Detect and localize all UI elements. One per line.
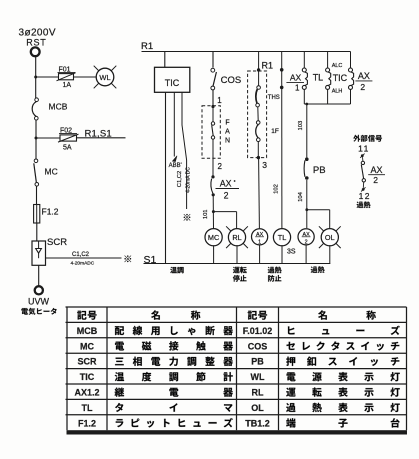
- svg-text:3S: 3S: [287, 249, 296, 256]
- wire 104: [306, 180, 308, 210]
- wire TIC sensor input ABB': [173, 92, 175, 156]
- label run stop: [233, 267, 240, 273]
- svg-text:F: F: [225, 120, 229, 127]
- label temperature control: [170, 267, 177, 273]
- timer coil TL: [273, 229, 290, 246]
- svg-text:OL: OL: [325, 233, 335, 242]
- svg-text:1F: 1F: [271, 128, 279, 135]
- svg-text:TL: TL: [313, 73, 324, 83]
- lamp WL power indicator: [96, 68, 114, 86]
- svg-text:3: 3: [262, 160, 267, 170]
- wire TIC output C1 C2: [182, 92, 187, 209]
- wire 101 to MC coil: [212, 196, 214, 229]
- supply terminal: [31, 47, 40, 56]
- svg-text:SCR: SCR: [47, 237, 67, 248]
- svg-text:F1.2: F1.2: [42, 207, 59, 217]
- wire branch to RL: [213, 211, 236, 213]
- svg-text:S1: S1: [144, 254, 157, 266]
- label overheat external: [357, 202, 364, 208]
- svg-text:MCB: MCB: [77, 326, 98, 336]
- svg-text:2: 2: [360, 82, 365, 92]
- remote box R1 dashed: [248, 71, 267, 158]
- label external signal: [353, 135, 360, 142]
- fuse F1.2 rapid: [34, 205, 40, 224]
- svg-text:F.01.02: F.01.02: [243, 326, 273, 336]
- svg-text:WL: WL: [99, 73, 110, 82]
- svg-text:102: 102: [273, 184, 279, 194]
- svg-text:2: 2: [218, 162, 223, 171]
- svg-text:AX1.2: AX1.2: [74, 388, 99, 398]
- wire rail to R1 interlock box: [258, 52, 260, 71]
- node 101 junction: [212, 210, 215, 213]
- svg-text:A: A: [225, 129, 230, 136]
- wire rail to TL coil 102: [281, 52, 283, 229]
- relay coil AX1: [252, 229, 268, 245]
- svg-text:OL: OL: [251, 403, 264, 413]
- wire rail R1: [142, 51, 351, 53]
- svg-text:THS: THS: [268, 95, 280, 101]
- contact AX2 heater enable: [211, 179, 213, 194]
- svg-text:2: 2: [224, 191, 229, 201]
- legend table: [66, 306, 407, 308]
- svg-text:COS: COS: [221, 75, 242, 86]
- svg-text:C1,C2: C1,C2: [72, 252, 90, 258]
- svg-text:TL: TL: [278, 233, 287, 242]
- node TL branch upper: [280, 68, 284, 72]
- remote box FAN dashed: [202, 106, 220, 159]
- wire to AX2 coil: [306, 210, 308, 228]
- svg-text:R1: R1: [141, 41, 153, 52]
- svg-text:4-20mA DC: 4-20mA DC: [185, 167, 191, 193]
- label electric heater: [21, 308, 28, 314]
- svg-text:103: 103: [298, 121, 304, 131]
- wire to fuse F01: [36, 76, 59, 78]
- terminal 12: [362, 188, 365, 191]
- svg-text:UVW: UVW: [28, 297, 50, 307]
- wire TIC to S1: [165, 92, 167, 263]
- svg-text:5A: 5A: [63, 144, 72, 151]
- coil MC contactor: [205, 229, 222, 246]
- contact AX2 external: [361, 161, 364, 164]
- relay coil AX2: [298, 229, 314, 245]
- contact TIC ALH / AX2: [350, 52, 352, 69]
- wire rail to TIC: [164, 52, 166, 68]
- svg-text:RST: RST: [26, 38, 46, 48]
- reference mark to SCR input: [184, 214, 191, 221]
- svg-text:F1.2: F1.2: [78, 418, 96, 428]
- svg-text:WL: WL: [251, 372, 265, 382]
- wire SCR control input C1 C2: [46, 257, 122, 259]
- reference mark to TIC output: [124, 255, 131, 262]
- svg-text:AX: AX: [358, 71, 370, 81]
- lamp OL overheat indicator: [321, 229, 338, 246]
- wire to fuse F02: [36, 137, 60, 139]
- wire 103 to PB: [306, 104, 308, 157]
- svg-text:PB: PB: [313, 165, 326, 176]
- node R1 branch top: [257, 68, 260, 71]
- svg-text:ABB': ABB': [169, 163, 182, 169]
- svg-text:TL: TL: [82, 403, 93, 413]
- wire alarm node: [304, 103, 350, 105]
- svg-text:TIC: TIC: [80, 372, 95, 382]
- svg-text:1: 1: [295, 83, 300, 92]
- svg-text:101: 101: [203, 209, 209, 219]
- wire main vertical to MCB: [35, 56, 37, 98]
- svg-text:SCR: SCR: [77, 357, 97, 367]
- svg-text:RL: RL: [232, 233, 241, 242]
- wire SCR to heater terminal: [38, 265, 40, 286]
- power regulator SCR: [32, 241, 46, 265]
- wire F1.2 to SCR: [36, 223, 38, 241]
- label overheat prevention: [268, 267, 275, 273]
- selector switch COS: [211, 68, 215, 72]
- svg-text:TIC: TIC: [333, 73, 348, 83]
- node F02 tap: [35, 137, 38, 140]
- svg-text:MC: MC: [208, 233, 219, 242]
- svg-text:104: 104: [298, 191, 304, 201]
- svg-text:12: 12: [359, 191, 371, 201]
- breaker MCB: [35, 98, 39, 102]
- contact FAN interlock: [212, 107, 214, 122]
- svg-text:TB1.2: TB1.2: [245, 418, 270, 428]
- wire MCB to F02 tap: [35, 120, 37, 159]
- contact MC main: [34, 159, 38, 163]
- wire branch to OL: [305, 208, 308, 211]
- label overheat: [311, 267, 318, 273]
- node 3: [257, 156, 260, 159]
- wire to AX1 coil: [258, 158, 261, 229]
- svg-text:4-20mADC: 4-20mADC: [71, 260, 95, 266]
- svg-text:11: 11: [358, 144, 370, 154]
- controller TIC temperature: [155, 67, 190, 92]
- wire rail S1: [144, 263, 331, 265]
- wire rail to COS: [212, 52, 214, 68]
- svg-text:RL: RL: [252, 388, 264, 398]
- wire MC to F1.2: [36, 186, 38, 204]
- heater terminal UVW: [35, 286, 43, 294]
- table bottom border: [67, 430, 408, 434]
- svg-text:AX: AX: [290, 73, 302, 83]
- svg-text:PB: PB: [251, 357, 264, 367]
- svg-text:2: 2: [305, 240, 308, 246]
- contact TIC ALC: [327, 52, 329, 69]
- table header: [77, 311, 86, 320]
- svg-text:N: N: [225, 138, 230, 145]
- lamp RL run indicator: [228, 229, 245, 246]
- svg-text:2: 2: [373, 175, 378, 185]
- svg-text:1: 1: [258, 240, 261, 246]
- wire COS to node 1: [212, 90, 214, 106]
- svg-text:AX: AX: [220, 179, 232, 189]
- node TL branch lower: [280, 86, 284, 90]
- contact THS thermostat: [258, 70, 260, 86]
- wire 1F to node 3: [257, 142, 259, 157]
- svg-text:AX: AX: [370, 165, 382, 175]
- wire F01 to WL: [74, 76, 97, 78]
- svg-text:C1,C2: C1,C2: [177, 171, 183, 187]
- contact 1F thermal fuse: [257, 107, 259, 121]
- contact AX1 alarm: [303, 52, 305, 69]
- pushbutton PB: [305, 157, 309, 161]
- node F01 tap: [34, 76, 37, 79]
- svg-text:R1: R1: [262, 61, 274, 71]
- svg-text:1: 1: [217, 96, 222, 105]
- svg-text:1A: 1A: [63, 82, 72, 89]
- svg-text:ALC: ALC: [332, 63, 343, 69]
- svg-text:MC: MC: [45, 167, 58, 177]
- svg-text:ALH: ALH: [332, 89, 343, 95]
- svg-text:MCB: MCB: [49, 102, 68, 112]
- svg-text:COS: COS: [248, 341, 268, 351]
- svg-text:MC: MC: [80, 341, 94, 351]
- svg-text:TIC: TIC: [165, 78, 180, 88]
